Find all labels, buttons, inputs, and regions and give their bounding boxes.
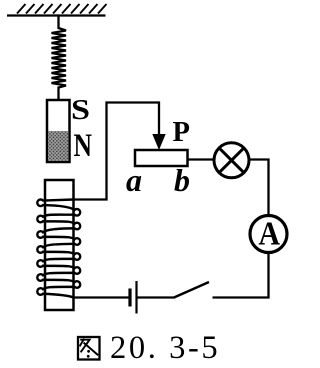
ceiling fixed support: [7, 4, 107, 16]
wire ammeter to switch: [213, 252, 269, 298]
wire rheostat to lamp: [188, 158, 214, 160]
wire coil top to slider P: [74, 103, 159, 200]
magnet N pole (lower gray half): [48, 131, 68, 161]
slider arrow: [152, 134, 165, 150]
svg-text:a: a: [126, 162, 142, 198]
coil core: [45, 180, 74, 310]
ammeter: [250, 216, 287, 253]
coil winding: [37, 200, 80, 298]
caption character 图: [78, 337, 100, 360]
wire lamp to ammeter: [249, 160, 269, 216]
svg-text:20. 3-5: 20. 3-5: [110, 330, 220, 366]
magnet S pole (upper half): [47, 100, 70, 162]
spring: [52, 16, 67, 101]
svg-text:b: b: [174, 162, 190, 198]
switch blade: [174, 282, 209, 298]
svg-text:P: P: [173, 117, 190, 148]
battery: [130, 281, 137, 314]
svg-text:S: S: [71, 95, 90, 126]
svg-text:A: A: [259, 216, 281, 253]
wire coil bottom to battery: [74, 296, 129, 298]
lamp: [214, 143, 249, 178]
svg-text:N: N: [74, 128, 93, 164]
rheostat body: [135, 150, 188, 166]
wire battery to switch: [138, 296, 175, 298]
